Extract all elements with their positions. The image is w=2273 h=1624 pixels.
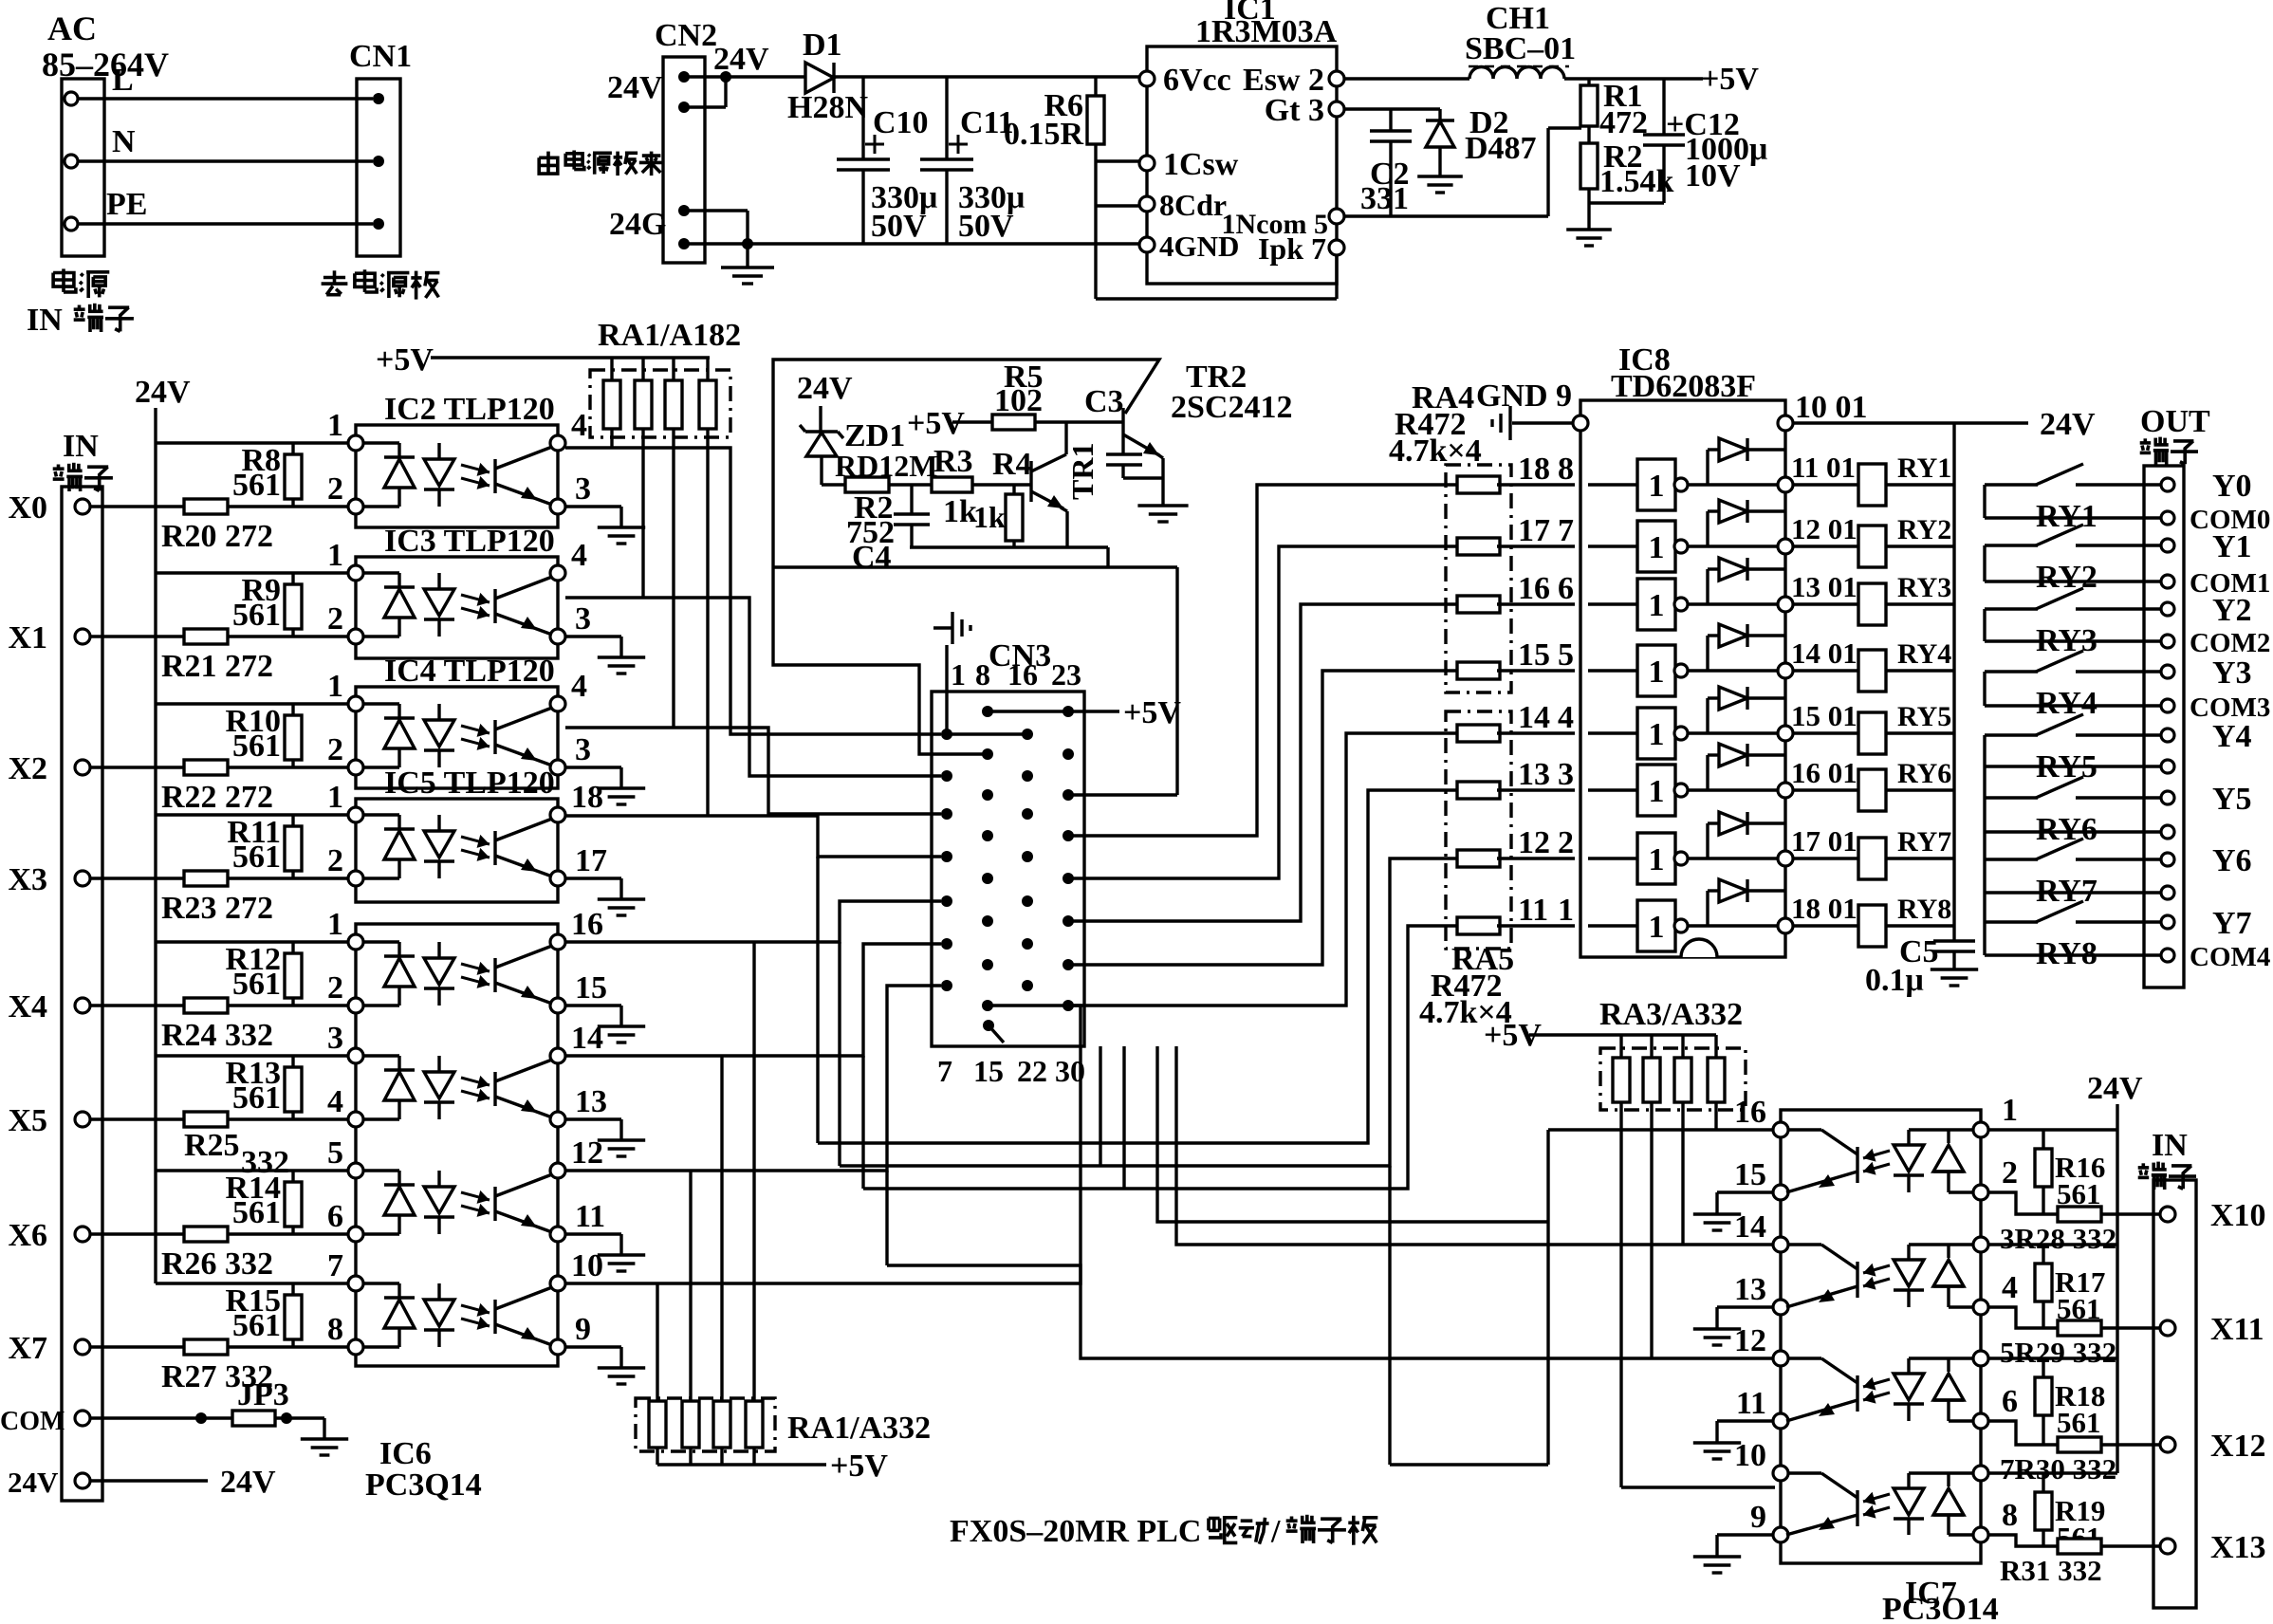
svg-text:12: 12	[571, 1135, 603, 1171]
svg-text:RY8: RY8	[1897, 894, 1951, 925]
svg-text:D1: D1	[803, 28, 842, 63]
wire CN3 drop a	[1099, 1046, 1101, 1166]
opto channel X0 internal	[363, 441, 399, 444]
svg-text:Y3: Y3	[2212, 655, 2252, 691]
pin CN3 col1	[941, 729, 952, 740]
terminal X10	[2160, 1207, 2175, 1222]
terminal out	[2161, 886, 2174, 899]
opto channel X3 pins	[348, 807, 363, 822]
opto channel X4 pins	[348, 934, 363, 950]
resistor R15 561	[291, 1283, 294, 1347]
svg-text:7: 7	[327, 1248, 343, 1283]
wire IC6 p12 branch down	[885, 1171, 888, 1265]
svg-text:15: 15	[973, 1054, 1004, 1088]
pin CN3 col4	[1063, 830, 1074, 841]
svg-text:9: 9	[575, 1312, 591, 1347]
terminal COM0	[2161, 511, 2174, 525]
svg-text:11: 11	[575, 1199, 605, 1234]
svg-text:Gt 3: Gt 3	[1265, 93, 1324, 128]
wire Esw to +5V	[1344, 77, 1469, 80]
wire CN2 pin3 link	[684, 209, 748, 212]
IC IC1 1R3M03A box	[1147, 46, 1337, 284]
svg-text:24V: 24V	[2040, 407, 2096, 442]
opto channel X7 internal	[363, 1282, 399, 1284]
terminal out	[2161, 825, 2174, 839]
svg-text:5R29 332: 5R29 332	[2000, 1336, 2116, 1369]
svg-text:Y0: Y0	[2212, 469, 2252, 504]
pin CN3 col1	[941, 938, 952, 950]
wire X7 input	[90, 1345, 356, 1348]
svg-text:10V: 10V	[1685, 158, 1741, 194]
svg-text:1Csw: 1Csw	[1163, 147, 1239, 182]
ground CN3 top	[945, 645, 948, 734]
pin IC7 right 4	[1973, 1300, 1988, 1315]
terminal Y0	[2161, 478, 2174, 491]
svg-text:24G: 24G	[609, 207, 666, 242]
terminal X0	[75, 499, 90, 514]
svg-text:RY4: RY4	[2036, 686, 2097, 721]
svg-text:8: 8	[327, 1312, 343, 1347]
relay contact RY8	[1985, 920, 2038, 923]
wire IC7 p7 24V	[1988, 1471, 2117, 1474]
wire R6 to 1Csw	[1096, 159, 1147, 162]
buffer IC8 ch6	[1588, 788, 1637, 791]
wire X0 input	[90, 505, 356, 507]
pin IC7 9	[1773, 1527, 1788, 1542]
svg-text:0.15R: 0.15R	[1004, 117, 1084, 152]
svg-text:Ipk 7: Ipk 7	[1258, 231, 1326, 266]
terminal X5	[75, 1112, 90, 1127]
terminal Y6	[2161, 853, 2174, 866]
svg-text:FX0S–20MR PLC: FX0S–20MR PLC	[950, 1514, 1201, 1549]
resistor R13 561	[291, 1056, 294, 1119]
wire TR2 collector frame	[773, 360, 1159, 567]
svg-text:4: 4	[327, 1084, 343, 1119]
resistor R24	[184, 998, 228, 1013]
opto IC7 ch3 internal	[1788, 1356, 1821, 1359]
svg-text:GND 9: GND 9	[1476, 378, 1572, 414]
wire pin8 to X13	[1988, 1535, 2058, 1546]
terminal X4	[75, 998, 90, 1013]
ground opto X1	[565, 635, 621, 637]
pin IC7 right 3	[1973, 1237, 1988, 1252]
transistor TR2 2SC2412	[1121, 408, 1124, 444]
svg-text:X12: X12	[2210, 1429, 2266, 1464]
svg-text:C3: C3	[1084, 384, 1124, 419]
svg-text:Y1: Y1	[2212, 529, 2252, 564]
pin CN3 col3	[1022, 895, 1033, 907]
pin IC7 right 6	[1973, 1413, 1988, 1429]
resistor R25	[184, 1112, 228, 1127]
pin out 15 01	[1778, 726, 1793, 741]
svg-text:RY6: RY6	[1897, 758, 1951, 789]
svg-text:2: 2	[327, 970, 343, 1006]
wire branch 24V pin1 ch3	[156, 813, 356, 816]
terminal COM2	[2161, 635, 2174, 648]
svg-text:1: 1	[1649, 530, 1665, 565]
resistor R10 561	[291, 704, 294, 767]
pin Esw 2	[1329, 71, 1344, 86]
opto IC7 ch2 internal	[1788, 1243, 1821, 1246]
relay coil RY2	[1793, 544, 1858, 547]
svg-text:8Cdr: 8Cdr	[1159, 188, 1227, 222]
wire branch 24V pin1 ch1	[156, 571, 356, 574]
svg-text:561: 561	[232, 598, 281, 633]
pin IC7 16	[1773, 1122, 1788, 1137]
svg-text:13: 13	[575, 1084, 607, 1119]
wire IC7 p1 24V	[1988, 1128, 2117, 1131]
svg-text:24V: 24V	[2087, 1071, 2143, 1106]
wire RA1 r3 to IC4 pin4	[672, 429, 675, 728]
wire R6 to 8Cdr	[1096, 204, 1147, 207]
svg-text:2: 2	[327, 843, 343, 878]
wire IC6 p12 to CN3	[565, 986, 941, 1171]
svg-text:14: 14	[1518, 700, 1550, 735]
wire emitter rail	[910, 545, 1108, 548]
pin CN3 col3	[1022, 938, 1033, 950]
relay coil RY3	[1793, 602, 1858, 605]
svg-text:3: 3	[575, 601, 591, 637]
wire RA1 r4 to IC5 pin18	[706, 429, 709, 816]
svg-text:PE: PE	[106, 187, 147, 222]
diode IC8 ch2	[1688, 544, 1785, 547]
opto channel X3 internal	[363, 813, 399, 816]
wire IC5 branch down	[816, 857, 819, 1143]
svg-text:OUT: OUT	[2140, 404, 2210, 439]
pin CN3 col4	[1063, 915, 1074, 927]
opto channel X1 internal	[363, 571, 399, 574]
svg-text:X11: X11	[2210, 1312, 2264, 1347]
opto channel X6 pins	[348, 1163, 363, 1178]
svg-text:22: 22	[1017, 1054, 1047, 1088]
resistor R26	[184, 1227, 228, 1242]
svg-text:4: 4	[1558, 700, 1574, 735]
pin 6Vcc	[1139, 71, 1155, 86]
resistor R30 332	[2058, 1437, 2101, 1452]
resistor R11 561	[291, 815, 294, 878]
wire branch 24V pin1 ch7	[156, 1282, 356, 1284]
terminal X6	[75, 1227, 90, 1242]
svg-text:11: 11	[1518, 893, 1548, 928]
wire IC6 p16 branch down	[838, 942, 841, 1166]
ground opto X7	[565, 1345, 621, 1348]
pin out 13 01	[1778, 597, 1793, 612]
svg-text:IC4 TLP120: IC4 TLP120	[384, 654, 555, 689]
resistor R2 1.54k	[1580, 143, 1598, 189]
opto channel X2 pins	[348, 696, 363, 711]
buffer IC8 ch7	[1588, 857, 1637, 859]
resistor R27	[184, 1339, 228, 1355]
pin CN3 col2	[982, 873, 993, 884]
pin IC7 right 7	[1973, 1466, 1988, 1481]
svg-text:Y5: Y5	[2212, 782, 2252, 817]
diode IC8 ch8	[1688, 924, 1785, 927]
svg-text:RY3: RY3	[2036, 623, 2097, 658]
terminal X13	[2160, 1539, 2175, 1554]
wire RA3 r4 tap	[1714, 1102, 1717, 1130]
svg-text:D487: D487	[1465, 131, 1537, 166]
wire IC6 p10 to CN3	[565, 1006, 1081, 1283]
pin CN3 col2	[982, 706, 993, 717]
svg-text:16: 16	[1007, 657, 1038, 692]
svg-text:X10: X10	[2210, 1198, 2266, 1233]
pin IC7 11	[1773, 1413, 1788, 1429]
svg-text:10: 10	[571, 1248, 603, 1283]
wire frame bottom	[773, 565, 1177, 568]
svg-text:RY2: RY2	[1897, 514, 1951, 545]
svg-text:RY8: RY8	[2036, 936, 2097, 971]
svg-text:X5: X5	[8, 1103, 47, 1138]
resistor R16 561	[2042, 1130, 2044, 1149]
terminal Y3	[2161, 665, 2174, 678]
pin out 11 01	[1778, 477, 1793, 492]
svg-text:561: 561	[232, 840, 281, 875]
svg-text:3: 3	[575, 732, 591, 767]
svg-text:13 01: 13 01	[1791, 570, 1857, 603]
opto IC7 PC3O14 box	[1781, 1110, 1981, 1563]
terminal out	[2161, 760, 2174, 773]
svg-text:IC3 TLP120: IC3 TLP120	[384, 524, 555, 559]
pin IC7 right 5	[1973, 1351, 1988, 1366]
wire N	[78, 159, 373, 162]
svg-text:18 01: 18 01	[1791, 892, 1857, 925]
relay coil RY4	[1793, 669, 1858, 672]
svg-text:1: 1	[327, 780, 343, 815]
svg-text:Y4: Y4	[2212, 719, 2252, 754]
svg-text:RY2: RY2	[2036, 560, 2097, 595]
pin CN3 col3	[1022, 808, 1033, 820]
wire CN3 to IC7 p16	[1157, 1046, 1548, 1222]
terminal Y4	[2161, 729, 2174, 742]
resistor R2 752	[845, 477, 889, 492]
wire frame right down to CN3	[1175, 567, 1178, 795]
svg-text:IC5 TLP120: IC5 TLP120	[384, 766, 555, 801]
ground IC7 ch2	[1717, 1305, 1773, 1308]
buffer IC8 ch1	[1588, 483, 1637, 486]
svg-text:561: 561	[2057, 1406, 2101, 1439]
wire RA4 RA5 rows to IC8	[1497, 483, 1575, 486]
opto channel X1 pins	[348, 565, 363, 581]
svg-text:1R3M03A: 1R3M03A	[1195, 14, 1338, 49]
wire CN3 col2 detour	[773, 567, 988, 754]
svg-text:7: 7	[937, 1054, 952, 1088]
svg-text:13: 13	[1734, 1272, 1766, 1307]
terminal COM4	[2161, 949, 2174, 962]
diode IC8 ch1	[1688, 483, 1785, 486]
pin IC7 right 2	[1973, 1185, 1988, 1200]
wire IC7 p5 24V	[1988, 1356, 2117, 1359]
capacitor C5 0.1u	[1933, 939, 1975, 942]
svg-text:RY5: RY5	[2036, 749, 2097, 784]
ground opto X6	[565, 1232, 621, 1235]
svg-text:3: 3	[1558, 757, 1574, 792]
svg-text:13: 13	[1518, 757, 1550, 792]
ground IC7 ch4	[1717, 1533, 1773, 1536]
relay contact RY3	[1985, 607, 2038, 610]
svg-text:331: 331	[1360, 181, 1409, 216]
resistor R21	[184, 629, 228, 644]
svg-text:R21 272: R21 272	[161, 649, 273, 684]
svg-text:14: 14	[571, 1021, 603, 1056]
svg-text:TR1: TR1	[1065, 443, 1100, 500]
svg-text:9: 9	[1750, 1500, 1766, 1535]
ground CN2	[746, 244, 748, 268]
buffer IC8 ch4	[1588, 669, 1637, 672]
opto channel X4 internal	[363, 940, 399, 943]
resistor R23	[184, 871, 228, 886]
relay coil RY8	[1793, 924, 1858, 927]
svg-text:X7: X7	[8, 1331, 47, 1366]
svg-text:R23 272: R23 272	[161, 891, 273, 926]
terminal X3	[75, 871, 90, 886]
pin CN3 col4	[1063, 1000, 1074, 1011]
svg-text:50V: 50V	[871, 209, 927, 244]
pin Ipk 7	[1329, 240, 1344, 255]
resistor network RA1/A332	[636, 1398, 775, 1451]
svg-text:50V: 50V	[958, 209, 1014, 244]
terminal 24V bottom	[75, 1473, 90, 1488]
wire branch 24V pin1 ch4	[156, 940, 356, 943]
svg-text:IC2 TLP120: IC2 TLP120	[384, 392, 555, 427]
svg-text:4: 4	[571, 538, 587, 573]
resistor R17 561	[2042, 1245, 2044, 1264]
svg-text:RA1/A332: RA1/A332	[787, 1411, 931, 1446]
svg-text:18: 18	[571, 780, 603, 815]
svg-text:R25: R25	[184, 1128, 240, 1163]
svg-text:1k: 1k	[943, 494, 977, 529]
pin out 17 01	[1778, 851, 1793, 866]
svg-text:561: 561	[232, 1308, 281, 1343]
svg-text:+5V: +5V	[1701, 62, 1759, 97]
wire X1 input	[90, 635, 356, 637]
resistor R14 561	[291, 1171, 294, 1234]
svg-text:3: 3	[575, 471, 591, 507]
pin CN3 col1	[941, 895, 952, 907]
resistor R9 561	[291, 573, 294, 637]
svg-text:11: 11	[1736, 1386, 1766, 1421]
svg-text:15: 15	[575, 970, 607, 1006]
pin CN3 col3	[1022, 980, 1033, 991]
opto-coupler box IC4 TLP120	[356, 687, 558, 788]
buffer IC8 ch8	[1588, 924, 1637, 927]
resistor R12 561	[291, 942, 294, 1006]
svg-text:X0: X0	[8, 490, 47, 526]
svg-text:X13: X13	[2210, 1530, 2266, 1565]
relay coil RY1	[1793, 483, 1858, 486]
svg-text:24V: 24V	[135, 375, 191, 410]
wire IC7 p3 24V	[1988, 1243, 2117, 1246]
ground IC7 ch3	[1717, 1419, 1773, 1422]
jumper JP3	[90, 1416, 324, 1419]
diode IC8 ch7	[1688, 857, 1785, 859]
svg-text:15 01: 15 01	[1791, 699, 1857, 732]
wire PE	[78, 222, 373, 225]
svg-text:1: 1	[1649, 588, 1665, 623]
svg-text:1: 1	[327, 669, 343, 704]
wire R2 to C12	[1589, 201, 1664, 204]
wire IC6 p14 to CN3	[565, 944, 941, 1056]
wire X4 input	[90, 1004, 356, 1006]
wire 24V rail top	[684, 75, 1147, 78]
wire IC2 out to CN3	[565, 448, 941, 734]
wire Gt to C2 D2	[1344, 107, 1440, 110]
svg-text:6Vcc: 6Vcc	[1163, 63, 1231, 98]
wire CN3 +5V	[988, 710, 1119, 712]
wire fan RA4 row3	[1068, 604, 1466, 921]
wire RA3 r3 tap	[1681, 1102, 1684, 1245]
pin CN3 col1	[941, 851, 952, 862]
diode IC8 ch4	[1688, 669, 1785, 672]
svg-text:1: 1	[1649, 842, 1665, 877]
opto-coupler box IC6 PC3Q14	[356, 924, 558, 1366]
ground C5	[1931, 968, 1978, 970]
svg-text:/: /	[1270, 1514, 1281, 1549]
svg-text:RY1: RY1	[2036, 499, 2097, 534]
svg-text:AC: AC	[47, 9, 97, 47]
buffer IC8 ch5	[1588, 731, 1637, 734]
pin CN3 col2	[982, 748, 993, 760]
wire X3 input	[90, 877, 356, 879]
opto channel X6 internal	[363, 1169, 399, 1172]
opto channel X5 internal	[363, 1054, 399, 1057]
svg-text:16: 16	[1734, 1095, 1766, 1130]
diode D2 D487	[1438, 109, 1441, 120]
svg-text:6: 6	[2002, 1384, 2018, 1419]
pin 10 01	[1778, 415, 1793, 431]
svg-text:Y2: Y2	[2212, 593, 2252, 628]
svg-text:561: 561	[232, 1195, 281, 1230]
pin 4GND	[1139, 237, 1155, 252]
pin CN3 col3	[1022, 851, 1033, 862]
svg-text:561: 561	[232, 468, 281, 503]
diode IC8 ch3	[1688, 602, 1785, 605]
svg-text:5: 5	[1558, 637, 1574, 673]
buffer IC8 ch2	[1588, 544, 1637, 547]
svg-text:C10: C10	[873, 105, 929, 140]
pin out 18 01	[1778, 918, 1793, 933]
wire CN3 to IC7 p14	[1176, 1046, 1775, 1245]
svg-text:IN: IN	[2152, 1128, 2188, 1163]
pin CN3 col2	[982, 789, 993, 801]
wire pin6 to X12	[1988, 1421, 2058, 1445]
svg-text:8: 8	[975, 657, 990, 692]
pin CN3 col4	[1063, 873, 1074, 884]
buffer IC8 ch3	[1588, 602, 1637, 605]
svg-text:1: 1	[1649, 655, 1665, 690]
driver IC8 TD62083F box	[1580, 400, 1785, 957]
svg-text:Y6: Y6	[2212, 843, 2252, 878]
wire Ipk loop bottom	[1096, 297, 1337, 300]
svg-text:15: 15	[1518, 637, 1550, 673]
relay coil RY6	[1793, 788, 1858, 791]
wire IC6 p16 to CN3	[565, 901, 941, 942]
svg-text:24V: 24V	[797, 371, 853, 406]
svg-text:PC3Q14: PC3Q14	[365, 1467, 482, 1503]
opto channel X5 pins	[348, 1048, 363, 1063]
svg-text:N: N	[112, 124, 136, 159]
capacitor C4	[910, 485, 913, 514]
diode IC8 ch5	[1688, 731, 1785, 734]
capacitor C10 330u 50V	[861, 77, 864, 159]
relay contact RY1	[1985, 483, 2038, 486]
svg-text:X2: X2	[8, 751, 47, 786]
pin 1Csw	[1139, 156, 1155, 171]
pin CN3 col4	[1063, 748, 1074, 760]
svg-text:1: 1	[327, 408, 343, 443]
svg-text:6: 6	[327, 1199, 343, 1234]
svg-text:RY7: RY7	[1897, 826, 1951, 858]
opto channel X7 pins	[348, 1276, 363, 1291]
